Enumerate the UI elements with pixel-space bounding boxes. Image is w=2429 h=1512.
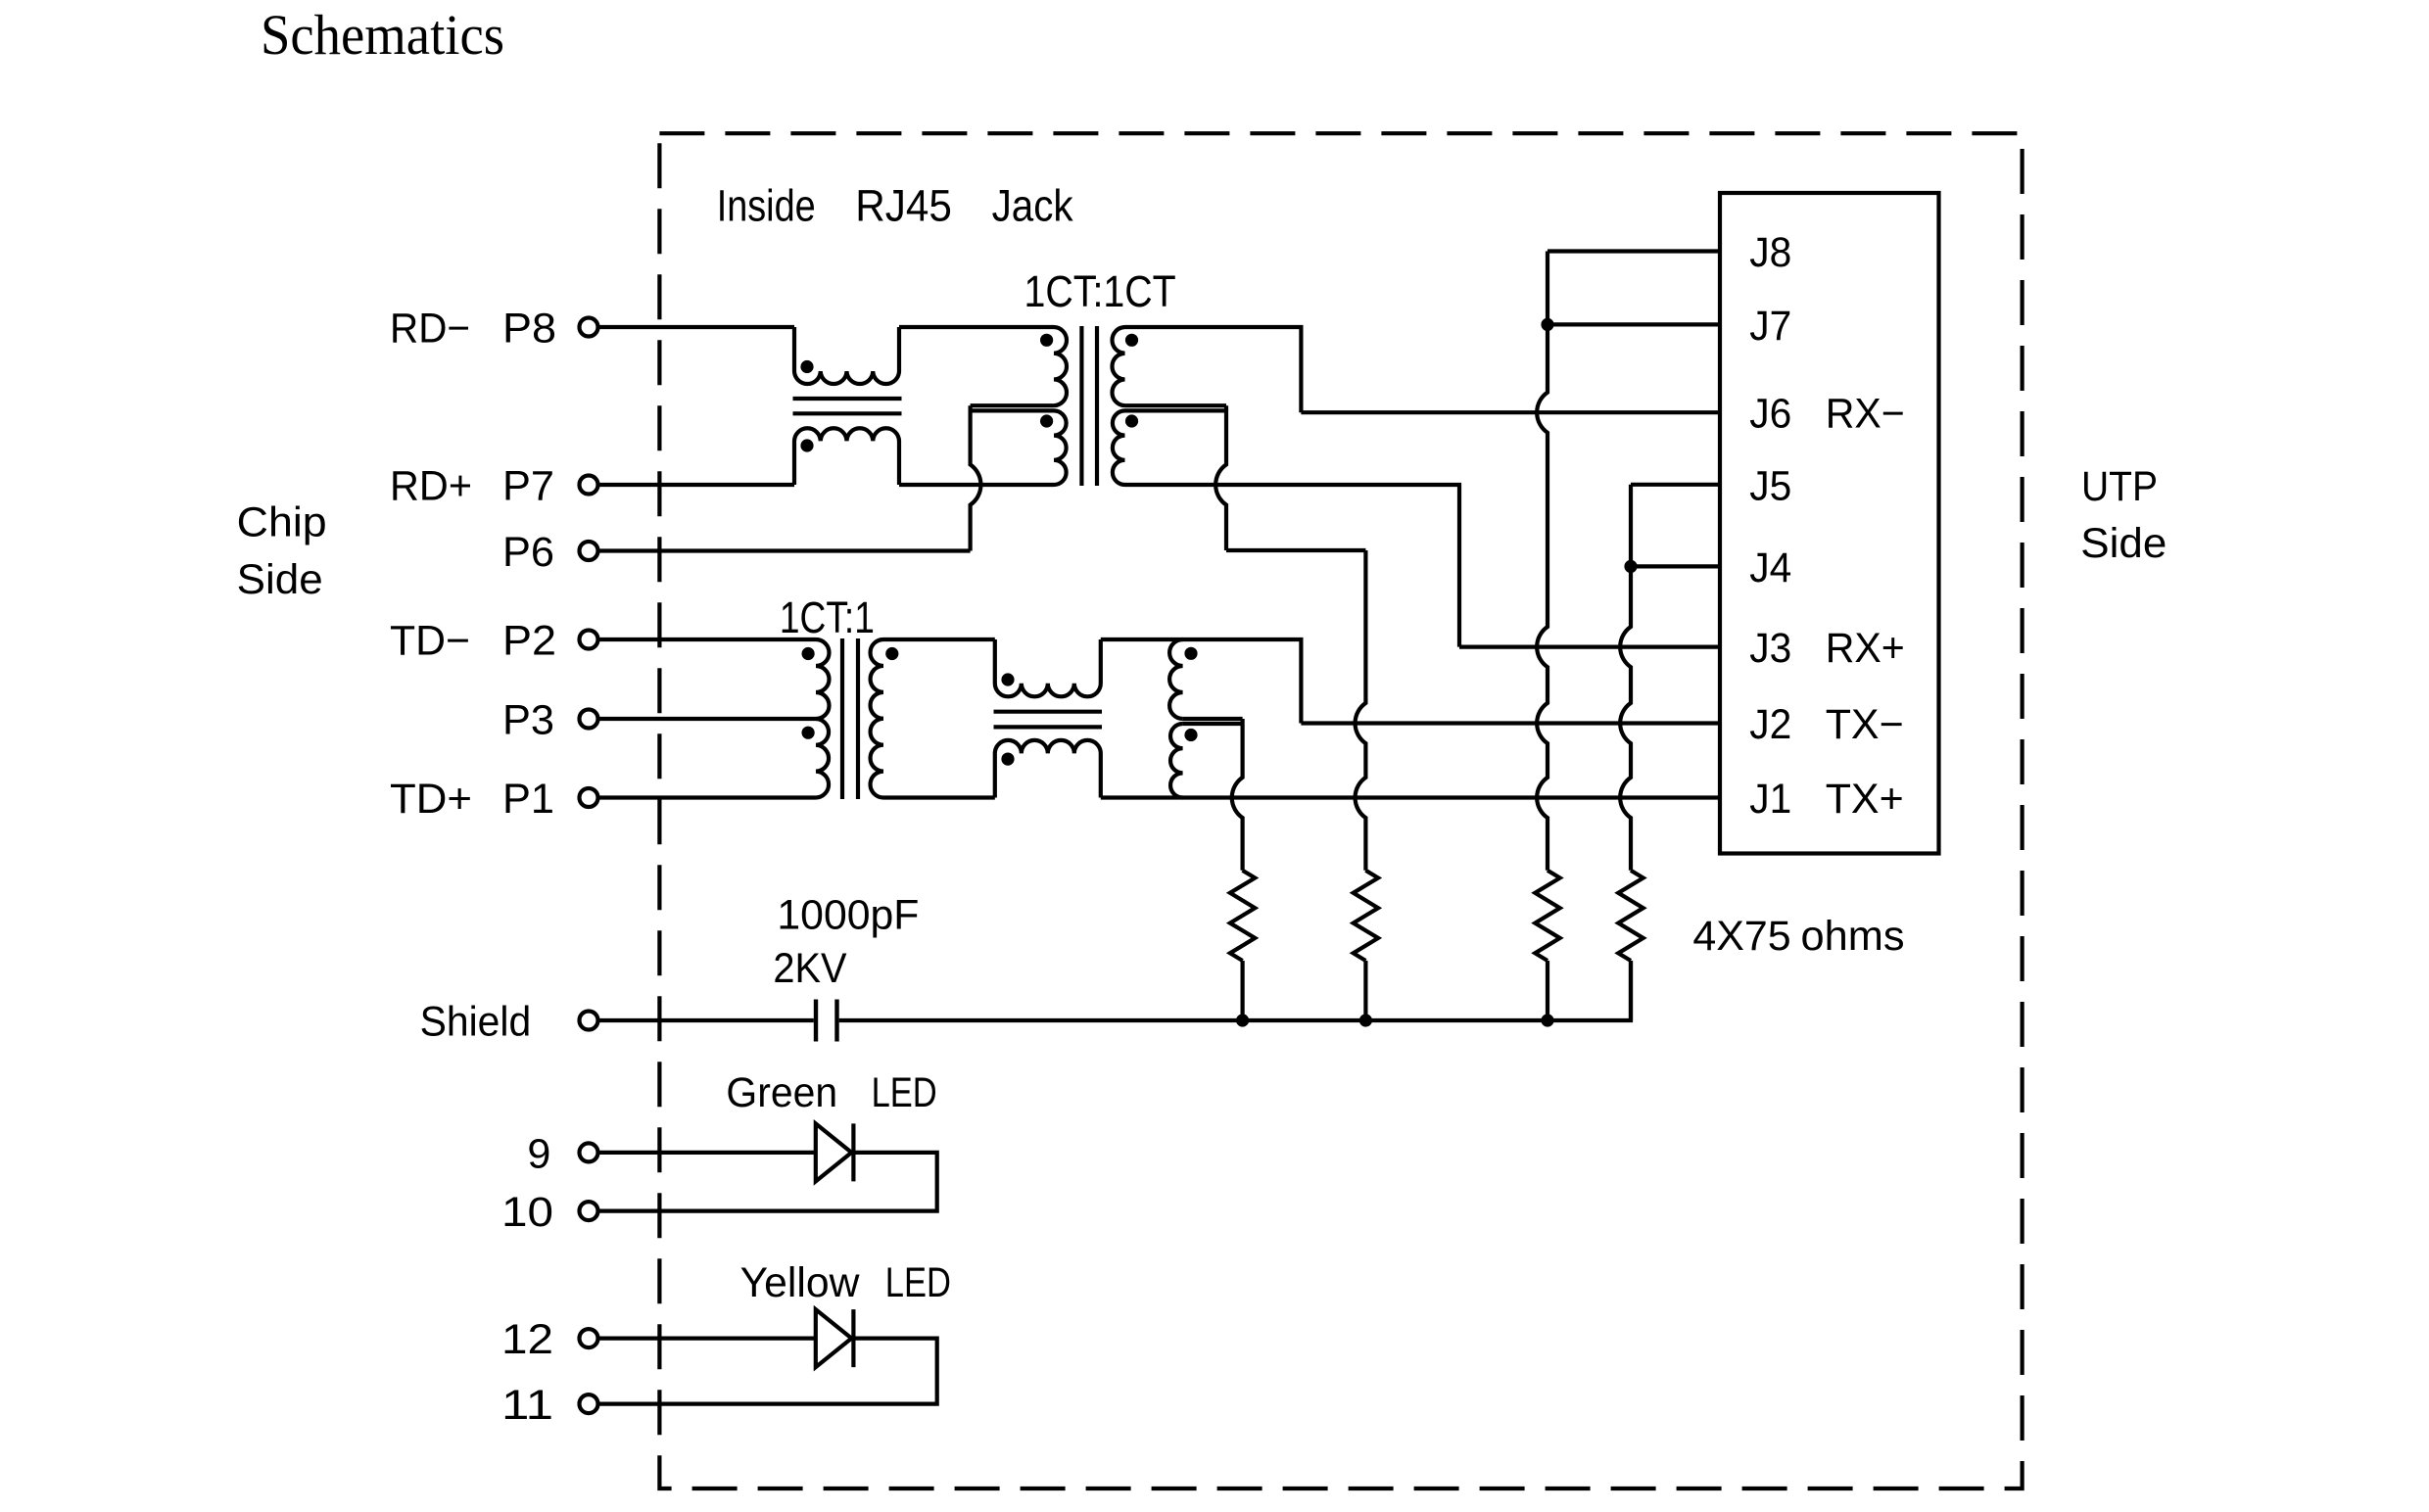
yellow LED D2 cathode bar <box>851 1309 855 1367</box>
svg-text:Inside: Inside <box>717 180 816 230</box>
junction dot R1-shield <box>1236 1014 1249 1026</box>
resistor R4 bottom lead <box>1629 961 1633 1020</box>
transformer T1 bottom-right dot <box>1125 414 1138 427</box>
terminal circle P7 <box>580 476 598 495</box>
wire P7 to choke L1 <box>600 483 795 487</box>
svg-text:P3: P3 <box>502 697 554 744</box>
svg-text:Yellow: Yellow <box>740 1259 861 1306</box>
choke L2 bottom winding dot <box>1001 753 1014 766</box>
wire P6 to T1 center tap <box>600 548 971 552</box>
svg-text:Schematics: Schematics <box>261 3 504 67</box>
svg-text:Jack: Jack <box>992 180 1073 230</box>
svg-text:Side: Side <box>2080 520 2167 567</box>
resistor R2 bottom lead <box>1363 961 1367 1020</box>
yellow LED D2 triangle <box>816 1309 852 1367</box>
wire choke L1 to T1 primary top <box>899 325 1054 329</box>
svg-text:J3: J3 <box>1749 625 1791 672</box>
transformer T1 top-right dot <box>1125 334 1138 347</box>
autotransformer winding C <box>1170 724 1183 798</box>
svg-text:TD+: TD+ <box>390 776 472 823</box>
transformer T2 bottom-left dot <box>802 727 815 739</box>
svg-text:1CT:1: 1CT:1 <box>780 592 875 642</box>
vertical J8 to J7 junction then to resistor R3 with hops <box>1537 252 1548 871</box>
connector box UTP jack pins <box>1720 193 1939 854</box>
choke L1 bottom winding <box>794 428 899 485</box>
terminal circle 11 <box>580 1394 598 1413</box>
junction dot J4 <box>1624 560 1637 573</box>
wire choke L2 to J2 bend <box>1101 639 1302 724</box>
transformer T2 core <box>840 638 844 799</box>
svg-text:2KV: 2KV <box>773 945 846 992</box>
vertical J5 to J4 junction then to resistor R4 with hops <box>1620 485 1631 871</box>
wire T1 secondary bottom to J3 bend <box>1125 485 1460 647</box>
wire T1 sec CT jog <box>1226 548 1365 552</box>
capacitor C1 plates <box>814 1000 818 1042</box>
resistor R4 body <box>1618 871 1643 961</box>
wire P2 to T2 <box>600 638 817 641</box>
autotransformer winding B <box>1169 639 1183 719</box>
wire choke L2 bottom to J1 TX+ <box>1101 795 1720 799</box>
choke L2 core lines <box>994 710 1103 714</box>
terminal circle P3 <box>580 710 598 729</box>
svg-text:RX−: RX− <box>1826 391 1905 438</box>
wire 9 to green LED <box>600 1151 816 1155</box>
wire T2 secondary bottom to choke L2 <box>883 795 995 799</box>
svg-text:J5: J5 <box>1749 462 1791 509</box>
svg-text:LED: LED <box>872 1069 937 1116</box>
resistor R1 body <box>1230 871 1255 961</box>
terminal circle 12 <box>580 1329 598 1347</box>
svg-text:ohms: ohms <box>1801 913 1905 960</box>
svg-text:P1: P1 <box>502 776 554 823</box>
resistor R3 bottom lead <box>1546 961 1549 1020</box>
transformer T1 bottom-right winding <box>1113 410 1125 485</box>
svg-text:P7: P7 <box>502 463 554 510</box>
choke L2 top winding dot <box>1001 673 1014 685</box>
transformer T2 top-left dot <box>802 647 815 660</box>
wire to J6 RX- <box>1301 410 1720 414</box>
terminal circle P8 <box>580 318 598 337</box>
choke L1 bottom winding dot <box>800 439 813 451</box>
wire to J2 TX- <box>1301 721 1720 725</box>
svg-text:P8: P8 <box>502 306 556 353</box>
svg-text:RD+: RD+ <box>390 463 472 510</box>
svg-text:RX+: RX+ <box>1826 625 1905 672</box>
wire capacitor to resistor commons <box>839 961 1631 1020</box>
autotransformer winding B dot <box>1184 647 1197 660</box>
svg-text:TD−: TD− <box>390 618 470 665</box>
transformer T1 core <box>1079 326 1083 486</box>
choke L1 core lines <box>793 397 902 401</box>
svg-text:J2: J2 <box>1749 701 1791 748</box>
wire T1 secondary top to J6 bend <box>1125 327 1302 412</box>
wire yellow LED loop to 11 <box>600 1339 937 1404</box>
svg-text:12: 12 <box>501 1316 553 1363</box>
dashed enclosure border: Inside RJ45 Jack <box>659 133 2022 1488</box>
terminal circle Shield <box>580 1012 598 1030</box>
wire T1 secondary CT lower to riser <box>1125 408 1227 412</box>
transformer T2 top-left winding <box>816 639 830 719</box>
svg-text:LED: LED <box>885 1259 951 1306</box>
choke L2 bottom winding <box>995 740 1101 798</box>
junction dot J7 <box>1541 318 1553 331</box>
transformer T1 top-left dot <box>1040 334 1053 347</box>
vertical T1 sec CT riser with hop over J3 feed <box>1215 405 1226 550</box>
transformer T2 secondary dot <box>885 647 898 660</box>
wire J7 <box>1548 322 1720 326</box>
svg-text:Green: Green <box>726 1069 837 1116</box>
svg-text:Chip: Chip <box>237 499 327 546</box>
transformer T1 bottom-left dot <box>1040 414 1053 427</box>
svg-text:TX−: TX− <box>1826 701 1904 748</box>
choke L2 top winding <box>995 639 1101 696</box>
svg-text:TX+: TX+ <box>1826 776 1904 823</box>
svg-text:P2: P2 <box>502 618 556 665</box>
resistor R1 bottom lead <box>1240 961 1244 1020</box>
svg-text:Side: Side <box>237 556 323 603</box>
svg-text:4X75: 4X75 <box>1692 913 1790 960</box>
wire to J3 RX+ <box>1459 644 1720 648</box>
green LED D1 cathode bar <box>851 1123 855 1181</box>
junction dot R3-shield <box>1541 1014 1553 1026</box>
wire winding B bottom to R1 riser <box>1183 717 1243 721</box>
wire 12 to yellow LED <box>600 1336 816 1340</box>
choke L1 top winding <box>794 327 899 384</box>
svg-text:Shield: Shield <box>420 999 532 1046</box>
svg-text:J4: J4 <box>1749 544 1791 591</box>
svg-text:J7: J7 <box>1749 303 1791 350</box>
svg-text:J1: J1 <box>1749 776 1791 823</box>
svg-text:1000pF: 1000pF <box>777 891 919 938</box>
vertical P6 riser with hop over P7 wire <box>971 405 981 550</box>
svg-text:J8: J8 <box>1749 229 1791 276</box>
svg-text:RJ45: RJ45 <box>855 180 952 230</box>
svg-text:RD−: RD− <box>390 306 470 353</box>
transformer T2 secondary winding <box>871 639 883 798</box>
svg-text:J6: J6 <box>1749 391 1791 438</box>
transformer T2 bottom-left winding <box>816 719 829 797</box>
junction dot R2-shield <box>1359 1014 1372 1026</box>
wire J5 <box>1631 483 1720 487</box>
wire J8 <box>1548 249 1720 253</box>
choke L1 top winding dot <box>800 360 813 373</box>
transformer T1 top-right winding <box>1112 327 1124 405</box>
terminal circle P6 <box>580 542 598 560</box>
svg-text:10: 10 <box>501 1189 553 1236</box>
wire P8 to choke L1 <box>600 325 795 329</box>
wire T1 left center-tap upper <box>971 403 1054 407</box>
svg-text:9: 9 <box>527 1130 550 1177</box>
svg-text:UTP: UTP <box>2081 463 2158 510</box>
terminal circle P2 <box>580 631 598 649</box>
wire P3 center tap <box>600 717 817 721</box>
svg-text:P6: P6 <box>502 529 554 576</box>
transformer T1 bottom-left winding <box>1054 410 1067 485</box>
vertical to resistor R2 with hops over TX wires <box>1356 550 1366 871</box>
wire T2 secondary top to choke L2 <box>883 638 995 641</box>
wire T1 secondary CT upper to riser <box>1125 403 1227 407</box>
wire J4 <box>1631 564 1720 568</box>
resistor R3 body <box>1535 871 1559 961</box>
terminal circle P1 <box>580 788 598 807</box>
resistor R2 body <box>1354 871 1378 961</box>
terminal circle 9 <box>580 1143 598 1161</box>
wire winding C top to R1 riser <box>1183 722 1243 726</box>
wire Shield to capacitor <box>600 1018 814 1022</box>
wire P1 to T2 <box>600 795 817 799</box>
wire T1 bottom-left to choke L1 <box>899 483 1054 487</box>
transformer T1 top-left winding <box>1054 327 1067 405</box>
wire green LED loop to 10 <box>600 1153 937 1211</box>
autotransformer winding C dot <box>1184 729 1197 741</box>
svg-text:1CT:1CT: 1CT:1CT <box>1024 266 1176 316</box>
vertical to resistor R1 with hop over TX+ wire <box>1232 719 1243 871</box>
green LED D1 triangle <box>816 1123 852 1181</box>
svg-text:11: 11 <box>501 1382 553 1429</box>
terminal circle 10 <box>580 1202 598 1220</box>
wire T1 left center-tap lower <box>971 408 1054 412</box>
